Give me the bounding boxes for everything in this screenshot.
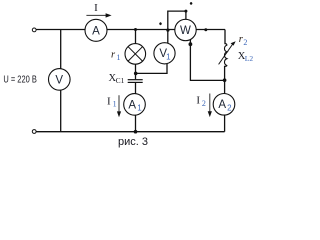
terminal bottom left [32,130,36,134]
svg-text:U = 220 В: U = 220 В [3,75,36,86]
node W tap on top rail [166,29,169,32]
node corner of W voltage tap [184,10,187,13]
terminal top left [32,28,36,32]
svg-text:A: A [218,99,226,111]
node below W [189,42,193,46]
svg-text:2: 2 [202,99,206,108]
svg-text:рис. 3: рис. 3 [118,136,148,148]
current arrow I2 [209,94,211,113]
voltmeter V [49,69,71,91]
current arrow I1 [118,95,120,112]
wire V1 bottom tap [136,62,167,73]
wire right branch (coil bottom through A2 to bottom rail corner) [224,66,226,132]
svg-text:A: A [92,25,100,37]
inductor L2 coil (variable) [224,44,226,67]
svg-text:I: I [196,95,200,107]
wire bottom rail [36,131,225,133]
wire right top corner into coil [224,30,226,45]
wire lamp branch upper (rail to capacitor top) [135,30,137,80]
svg-text:A: A [128,99,136,111]
wire wattmeter voltage tap (V1 top, bend over W) [168,11,186,44]
meter circles drawn over wires [49,19,235,115]
wire W bottom branch to right junction [190,40,224,81]
svg-text:C1: C1 [116,76,125,85]
wattmeter W [175,19,196,40]
svg-text:2: 2 [243,38,247,47]
svg-text:W: W [180,25,191,37]
asterisk above W [190,2,193,5]
node right branch junction [223,78,227,82]
wire left branch to voltmeter V [60,30,62,132]
node A1 on bottom rail [134,130,138,134]
wire top rail [36,29,225,31]
svg-text:1: 1 [117,53,121,62]
node lamp branch on top rail [134,28,137,31]
current arrow I [86,14,107,16]
svg-text:2: 2 [227,103,232,112]
svg-text:I: I [94,2,98,14]
svg-text:1: 1 [137,103,142,112]
node right of W [204,28,207,31]
junction dots [134,10,227,134]
lamp cross [128,47,142,61]
svg-text:I: I [107,96,111,108]
ammeter A [85,19,107,41]
svg-text:1: 1 [113,100,117,109]
svg-text:1: 1 [166,52,171,61]
ammeter A1 [124,94,146,116]
capacitor C1 plates [128,80,143,83]
voltmeter V1 [154,43,175,64]
wire capacitor bottom to bottom rail through A1 [135,83,137,132]
ammeter A2 [213,94,235,116]
lamp r1 [125,44,146,65]
svg-text:V: V [55,74,63,86]
arrow through inductor (variable) [219,44,233,65]
node lamp-capacitor V1 tap [134,72,138,76]
asterisk near W voltage tap on rail [159,22,162,25]
svg-text:L2: L2 [245,54,254,63]
